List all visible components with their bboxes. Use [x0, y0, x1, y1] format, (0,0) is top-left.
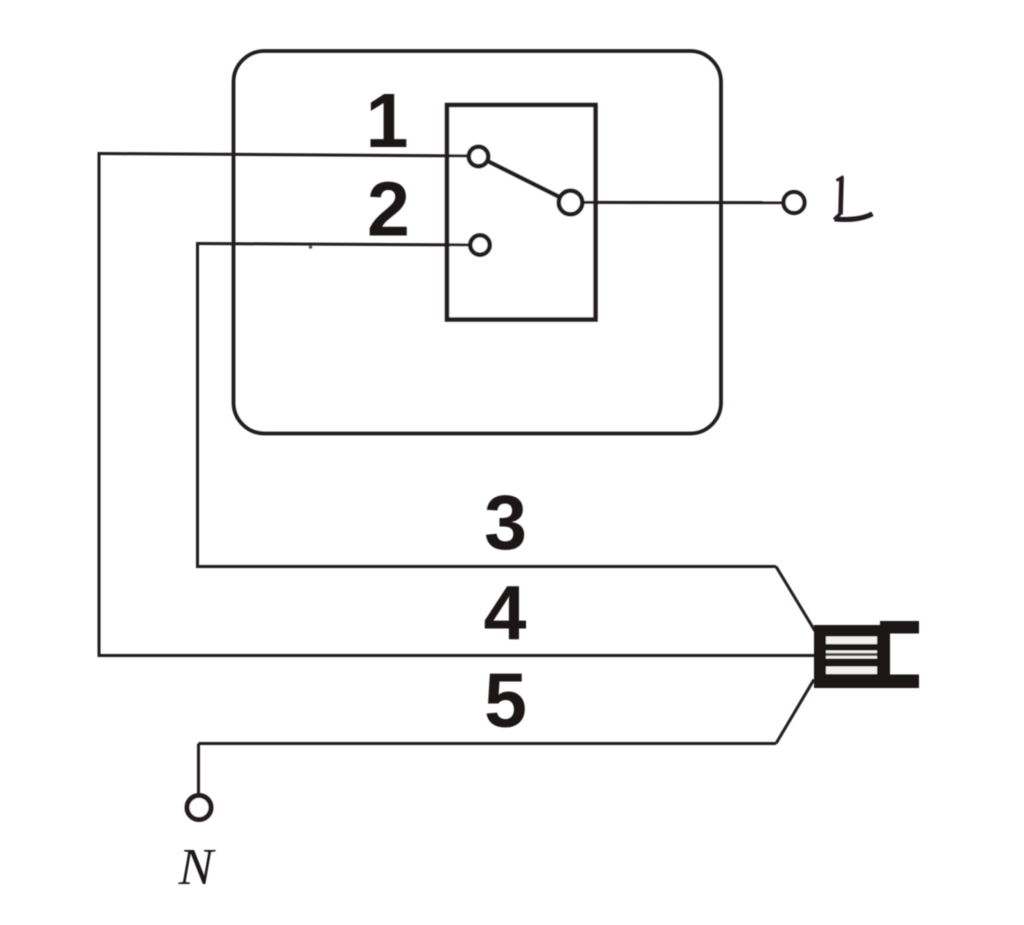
wire 5 to N vertical [197, 744, 200, 798]
crimp slot middle [826, 651, 877, 659]
wire common stub inside switch body [570, 201, 595, 204]
switch enclosure box [234, 51, 722, 434]
svg-text:4: 4 [484, 571, 527, 657]
svg-text:1: 1 [366, 78, 409, 164]
wire 2 stub inside switch body [447, 243, 480, 246]
crimp slot bottom [826, 667, 877, 675]
label L [834, 177, 873, 220]
svg-text:2: 2 [367, 167, 410, 253]
wire 1 stub inside switch body [447, 154, 478, 157]
wire 2-3 vertical [196, 242, 199, 568]
svg-text:3: 3 [484, 480, 527, 566]
svg-text:N: N [178, 839, 217, 896]
cable crimp connector body [814, 625, 880, 688]
wire 4 horizontal [98, 654, 815, 657]
connector bracket [880, 621, 919, 688]
switch body rectangle [447, 105, 596, 320]
wire 2 (to terminal 2) [198, 244, 481, 246]
switch lever [479, 157, 571, 203]
N terminal circle [187, 796, 211, 820]
wire common to L terminal [570, 201, 792, 204]
svg-text:5: 5 [484, 658, 527, 744]
stray ink dot [309, 245, 313, 249]
wire 5 horizontal [199, 742, 777, 745]
wire 3 diagonal into connector [776, 567, 815, 632]
L terminal circle [784, 192, 805, 213]
wire 5 diagonal into connector [776, 680, 814, 744]
wire 1 (to terminal 1) [98, 154, 479, 157]
switch common terminal circle [559, 191, 583, 215]
crimp slot top [826, 637, 877, 645]
wire 4 line through middle slot [826, 653, 877, 656]
switch terminal 1 circle [469, 147, 489, 167]
wire 1-4 left vertical [98, 152, 101, 657]
wire 3 horizontal [196, 565, 776, 568]
switch terminal 2 circle [470, 235, 490, 255]
